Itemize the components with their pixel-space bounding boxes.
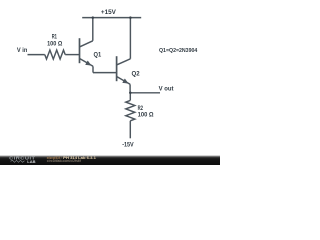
- svg-text:100 Ω: 100 Ω: [47, 41, 62, 48]
- svg-text:V out: V out: [159, 85, 175, 92]
- node rail-Q2 junction: [129, 16, 132, 19]
- svg-text:Q2: Q2: [132, 71, 141, 78]
- svg-text:+15V: +15V: [101, 9, 117, 16]
- resistor R2: [126, 100, 135, 120]
- watermark bar: [0, 155, 220, 165]
- wire Vin to R1: [28, 54, 45, 56]
- svg-text:Q1=Q2=2N3904: Q1=Q2=2N3904: [159, 48, 198, 54]
- wire junction to R2: [129, 93, 131, 101]
- svg-text:-15V: -15V: [122, 142, 134, 149]
- transistor Q1: [80, 38, 94, 72]
- svg-text:R1: R1: [52, 34, 58, 41]
- node Vout junction: [129, 92, 132, 95]
- wire Q1 emitter to Q2 base: [93, 72, 117, 74]
- svg-text:100 Ω: 100 Ω: [138, 111, 154, 118]
- svg-text:LAB: LAB: [27, 160, 36, 164]
- transistor Q2: [117, 56, 131, 93]
- wire R2 to -15V: [129, 121, 131, 139]
- wire Q1 collector drop: [92, 18, 94, 41]
- watermark logo squiggle: [11, 160, 25, 162]
- wire Q2 collector drop: [129, 18, 131, 59]
- svg-text:Q1: Q1: [94, 52, 102, 59]
- resistor R1: [45, 50, 65, 59]
- node rail-Q1 junction: [92, 16, 95, 19]
- svg-text:V in: V in: [17, 47, 28, 54]
- wire Vout: [130, 92, 160, 94]
- wire +15V rail: [82, 17, 141, 19]
- svg-text:circuitlab.com/c/2fs6f: circuitlab.com/c/2fs6f: [47, 159, 82, 163]
- wire R1 to Q1 base: [65, 54, 79, 56]
